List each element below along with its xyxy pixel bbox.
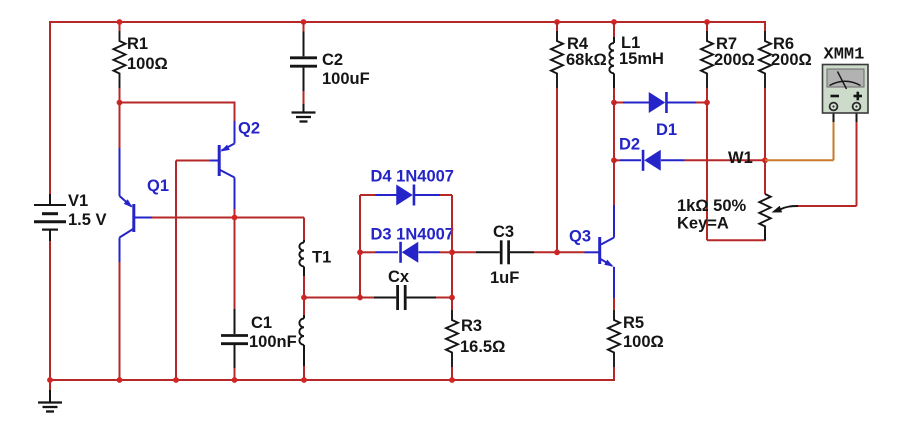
junction Q2 base rail	[173, 377, 179, 383]
svg-text:68kΩ: 68kΩ	[566, 51, 607, 69]
svg-text:C1: C1	[251, 314, 272, 332]
diode D4 1N4007	[360, 194, 376, 196]
wire between D1 and D2 rows	[613, 103, 615, 161]
junction T1 rail	[301, 377, 307, 383]
svg-text:D2: D2	[619, 136, 640, 154]
svg-text:Q3: Q3	[569, 228, 591, 246]
resistor R1	[119, 22, 121, 31]
capacitor C2	[301, 19, 307, 25]
svg-text:V1: V1	[68, 192, 88, 210]
wire left branch up to diodes	[359, 195, 361, 298]
junction Q1 collector rail	[117, 377, 123, 383]
resistor R4	[554, 19, 560, 25]
transistor Q1 PNP	[119, 103, 121, 149]
multimeter lead plus	[856, 108, 858, 122]
svg-text:R1: R1	[127, 35, 148, 53]
transistor Q2 PNP	[234, 121, 236, 144]
svg-text:C3: C3	[493, 223, 514, 241]
junction D2 left	[611, 157, 617, 163]
svg-text:R3: R3	[461, 317, 482, 335]
junction Q2 collector / Q1 base	[232, 215, 238, 221]
svg-text:Cx: Cx	[388, 268, 410, 286]
XMM1 terminal plus	[853, 103, 861, 111]
resistor R7	[704, 19, 710, 25]
junction C1 rail	[232, 377, 238, 383]
svg-text:T1: T1	[312, 249, 331, 267]
wire left vertical (battery branch)	[49, 21, 51, 194]
svg-text:16.5Ω: 16.5Ω	[460, 338, 505, 356]
XMM1 scale arc	[830, 81, 861, 85]
svg-text:15mH: 15mH	[619, 50, 664, 68]
junction R4 bottom / Q3 base / C3	[554, 249, 560, 255]
svg-text:1kΩ 50%: 1kΩ 50%	[677, 197, 747, 215]
wire T1 tap to Cx node	[304, 297, 360, 299]
wire W1 net	[685, 159, 766, 161]
svg-text:W1: W1	[728, 149, 753, 167]
wire right branch of diode loop	[451, 195, 453, 298]
svg-text:Key=A: Key=A	[677, 215, 729, 233]
XMM1 meter face	[827, 69, 864, 87]
capacitor Cx	[360, 297, 374, 299]
capacitor C3	[452, 251, 476, 253]
wire pot bottom corner	[764, 239, 766, 242]
resistor R3	[451, 298, 453, 311]
diode D2	[614, 159, 620, 161]
junction D3 right	[449, 249, 455, 255]
svg-text:XMM1: XMM1	[824, 46, 865, 65]
wire Q1 collector to rail	[119, 262, 121, 380]
XMM1 minus sign	[831, 95, 840, 98]
wire Q3 base	[557, 251, 585, 253]
junction D3 left	[357, 249, 363, 255]
wire bottom rail	[50, 379, 614, 381]
wire orange W1 to multimeter minus	[765, 159, 834, 161]
svg-text:100nF: 100nF	[249, 333, 297, 351]
svg-text:R5: R5	[623, 314, 644, 332]
XMM1 plus sign	[854, 95, 863, 98]
ground at C2	[303, 104, 305, 113]
svg-text:100Ω: 100Ω	[127, 55, 168, 73]
junction R3 rail	[449, 377, 455, 383]
transistor Q3 NPN	[613, 160, 615, 205]
svg-text:C2: C2	[322, 51, 343, 69]
junction R7 bottom / D1 right	[704, 100, 710, 106]
wire Q1 base row	[152, 217, 304, 219]
junction Cx right / R3 top	[449, 295, 455, 301]
battery V1	[49, 194, 51, 206]
junction L1 bottom / D1 left	[611, 100, 617, 106]
svg-text:D4 1N4007: D4 1N4007	[371, 168, 454, 186]
wire Q2 base	[176, 160, 210, 162]
wire red multimeter plus to pot wiper	[856, 122, 858, 206]
svg-text:200Ω: 200Ω	[714, 51, 755, 69]
junction T1 tap	[301, 295, 307, 301]
XMM1 terminal minus	[830, 103, 838, 111]
wire top rail	[50, 21, 765, 23]
wire node row y102	[120, 102, 236, 104]
junction bottom-left	[47, 377, 53, 383]
junction R1 bottom node	[117, 100, 123, 106]
inductor L1	[611, 19, 617, 25]
potentiometer 1kΩ 50% Key=A	[764, 160, 766, 194]
transformer T1	[303, 218, 305, 241]
multimeter XMM1 body	[823, 65, 869, 114]
junction R1 top	[117, 19, 123, 25]
junction W1 / R6 / potentiometer	[762, 157, 768, 163]
svg-text:200Ω: 200Ω	[771, 51, 812, 69]
diode D1	[614, 102, 623, 104]
ground at battery	[49, 380, 51, 390]
junction Cx left node	[357, 295, 363, 301]
svg-text:1uF: 1uF	[490, 269, 519, 287]
capacitor C1	[234, 309, 236, 334]
svg-text:1.5 V: 1.5 V	[68, 211, 107, 229]
diode D3 1N4007	[360, 251, 376, 253]
resistor R5	[613, 298, 615, 310]
wire R7 column down to pot bottom	[706, 103, 708, 241]
svg-text:Q2: Q2	[238, 120, 260, 138]
svg-text:100Ω: 100Ω	[623, 333, 664, 351]
resistor R6	[764, 21, 766, 31]
XMM1 needle	[838, 72, 847, 90]
wire Q2 collector down	[234, 209, 236, 309]
svg-text:D3 1N4007: D3 1N4007	[371, 226, 454, 244]
svg-text:D1: D1	[656, 121, 677, 139]
svg-text:100uF: 100uF	[322, 70, 370, 88]
pot wiper arrow	[780, 206, 798, 210]
multimeter lead minus	[833, 108, 835, 122]
svg-text:Q1: Q1	[147, 177, 169, 195]
